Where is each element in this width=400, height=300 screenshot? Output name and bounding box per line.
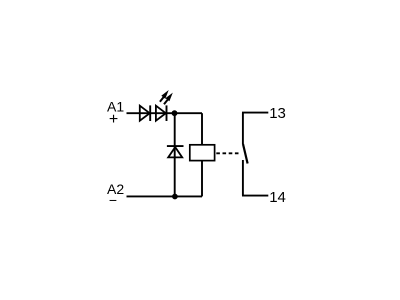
wire freewheeling diode branch (vertical) [174, 113, 176, 196]
mechanical link (dashed) coil to contact [216, 152, 241, 154]
node junction bottom (A2 rail) [172, 194, 178, 200]
polarity mark + [109, 111, 118, 128]
wire A1 input (top left horizontal) [127, 112, 203, 114]
terminal label A1 [107, 99, 124, 115]
svg-text:−: − [109, 192, 117, 208]
relay coil K1 [190, 145, 215, 161]
wire terminal 14 (horizontal) [242, 195, 268, 197]
svg-text:+: + [109, 111, 118, 128]
wire A2 input (bottom left horizontal) [127, 195, 203, 197]
polarity mark − [109, 192, 117, 208]
terminal label 14 [269, 189, 286, 206]
terminal label A2 [107, 181, 124, 197]
LED light emission arrows [160, 90, 173, 104]
wire contact upper (vertical) [242, 113, 244, 145]
node junction top (LED cathode / branches) [172, 110, 178, 116]
terminal label 13 [269, 105, 286, 122]
LED V2 (series, anode left) [156, 105, 167, 121]
svg-text:13: 13 [269, 105, 286, 122]
freewheeling diode V3 (vertical, cathode up) [167, 146, 184, 157]
wire terminal 13 (horizontal) [242, 112, 268, 114]
wire coil branch (vertical) [201, 113, 203, 196]
relay contact blade (NO) [243, 144, 248, 164]
svg-text:14: 14 [269, 189, 286, 206]
wire contact lower (vertical) [242, 160, 244, 196]
diode V1 (series, anode left) [140, 105, 150, 121]
